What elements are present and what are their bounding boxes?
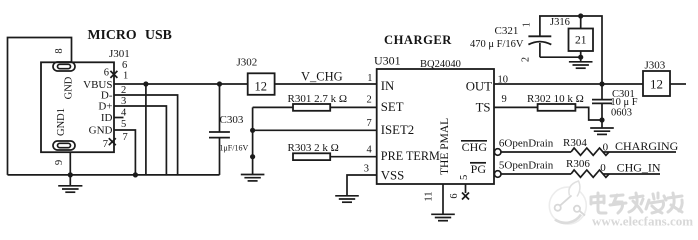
ground under connector [58, 186, 82, 192]
svg-text:PRE TERM: PRE TERM [381, 149, 440, 163]
svg-text:5: 5 [121, 119, 126, 130]
resistor R301 2.7k [253, 93, 377, 111]
svg-text:1μF/16V: 1μF/16V [220, 144, 249, 153]
svg-text:www.elecfans.com: www.elecfans.com [592, 214, 693, 229]
resistor R303 2k [288, 142, 377, 160]
svg-text:4: 4 [366, 145, 372, 156]
IC U301 BQ24040 [374, 54, 494, 185]
junction dot PRETERM [250, 154, 255, 159]
svg-text:5: 5 [459, 175, 470, 180]
wire GND row [114, 130, 135, 175]
connector J302 [237, 57, 275, 95]
junction dot OUT [599, 81, 604, 86]
svg-text:2: 2 [366, 95, 371, 106]
resistor R306 zigzag [566, 158, 609, 177]
wire TS row [494, 106, 538, 108]
wire VBUS to ground drop [145, 84, 147, 175]
pad oval top [53, 62, 75, 71]
ground VSS [335, 196, 359, 202]
svg-text:10 μ F: 10 μ F [610, 97, 637, 108]
svg-text:R306: R306 [566, 158, 590, 170]
wire top bus [539, 16, 602, 84]
svg-text:1: 1 [367, 73, 372, 84]
svg-text:2: 2 [521, 57, 532, 62]
svg-text:CHARGER: CHARGER [384, 33, 452, 47]
wire J302 to IN [275, 83, 377, 85]
svg-text:6: 6 [104, 68, 109, 79]
svg-text:PG: PG [471, 162, 487, 176]
capacitor C301 10uF [592, 84, 638, 128]
svg-text:9: 9 [502, 94, 507, 105]
svg-text:6OpenDrain: 6OpenDrain [499, 137, 554, 149]
junction dot J316 ground [578, 55, 583, 60]
svg-text:8: 8 [54, 48, 65, 53]
svg-text:0603: 0603 [611, 108, 632, 119]
svg-text:MICRO: MICRO [88, 27, 137, 42]
svg-text:7: 7 [366, 118, 371, 129]
svg-text:U301: U301 [374, 54, 401, 68]
wire OUT row [494, 83, 643, 85]
connector J316 [550, 16, 593, 62]
svg-text:IN: IN [381, 79, 395, 93]
pin 6 no-connect below chip [449, 184, 469, 200]
open-drain circle CHG [494, 149, 501, 156]
svg-text:12: 12 [650, 77, 663, 92]
connector J301 body [41, 62, 114, 152]
svg-text:ID: ID [101, 112, 113, 124]
junction dot VBUS drop [143, 81, 148, 86]
wire D- [114, 95, 178, 175]
resistor R304 zigzag [563, 137, 609, 155]
junction dot C301 bottom [599, 117, 604, 122]
svg-text:J301: J301 [109, 48, 130, 60]
open-drain circle PG [494, 171, 501, 178]
svg-text:C321: C321 [495, 25, 519, 37]
connector J303 [643, 60, 686, 97]
svg-text:J303: J303 [645, 60, 666, 72]
svg-text:1: 1 [123, 70, 128, 81]
svg-text:D+: D+ [98, 101, 112, 113]
svg-text:21: 21 [575, 35, 587, 47]
svg-text:3: 3 [364, 164, 369, 175]
svg-text:7: 7 [103, 139, 108, 150]
svg-text:10: 10 [498, 75, 509, 86]
pin 11 thermal pad [424, 184, 455, 221]
wire pin9 stub [69, 152, 71, 185]
svg-text:C303: C303 [220, 114, 244, 126]
svg-text:7: 7 [123, 132, 128, 143]
svg-text:CHG: CHG [462, 140, 488, 154]
ground under R-network [241, 175, 265, 181]
svg-text:6: 6 [449, 193, 460, 198]
junction dot pin9 [68, 172, 73, 177]
wire ground bus [8, 174, 220, 176]
junction dot ISET2 [250, 128, 255, 133]
junction dot GND row [133, 172, 138, 177]
no-connect X pin6 [110, 71, 117, 78]
svg-text:5OpenDrain: 5OpenDrain [499, 160, 554, 172]
wire VSS row [347, 175, 377, 196]
svg-text:9: 9 [54, 160, 65, 165]
svg-text:CHARGING: CHARGING [615, 139, 679, 153]
wire ID stub [114, 117, 124, 119]
junction dot J316 top [578, 13, 583, 18]
wire D+ [114, 106, 166, 175]
svg-text:THE PMAL: THE PMAL [439, 118, 451, 175]
watermark logo [549, 181, 586, 224]
svg-text:470 μ F/16V: 470 μ F/16V [470, 39, 524, 50]
wire CHARGING net [603, 151, 676, 153]
svg-text:1: 1 [522, 22, 533, 27]
svg-text:V_CHG: V_CHG [301, 70, 343, 84]
svg-text:GND1: GND1 [56, 108, 67, 136]
wire VBUS row [114, 83, 248, 85]
svg-text:12: 12 [255, 79, 268, 93]
wire shell top [8, 38, 72, 175]
svg-text:J316: J316 [550, 17, 570, 28]
wire C321 bottom to J316 ground [540, 56, 581, 58]
wire PG row [501, 173, 571, 175]
svg-text:CHG_IN: CHG_IN [617, 161, 661, 175]
capacitor C303 [209, 84, 248, 175]
no-connect X pin7 [109, 138, 116, 145]
watermark text dianzi fashaoyou [591, 193, 682, 213]
svg-text:0: 0 [600, 162, 606, 174]
pad oval bottom [53, 141, 75, 150]
svg-text:R304: R304 [563, 137, 587, 149]
svg-text:R303 2 k Ω: R303 2 k Ω [288, 142, 339, 154]
svg-text:11: 11 [424, 191, 435, 201]
wire CHG_IN net [603, 173, 660, 175]
wire CHG row [501, 151, 571, 153]
svg-text:VSS: VSS [381, 169, 404, 183]
svg-text:TS: TS [476, 101, 491, 115]
capacitor C321 470uF [470, 16, 551, 62]
svg-text:OUT: OUT [466, 80, 492, 94]
ground under J316 [569, 62, 593, 68]
wire ISET2 row [253, 129, 377, 131]
wire SET/ISET2/PRETERM vertical [252, 107, 254, 174]
svg-text:SET: SET [381, 100, 404, 114]
svg-text:ISET2: ISET2 [381, 123, 414, 137]
svg-text:GND: GND [64, 76, 75, 99]
junction dot C303 top [217, 81, 222, 86]
svg-text:USB: USB [145, 27, 172, 42]
ground under C301 [590, 128, 614, 134]
resistor R302 10k [527, 93, 602, 120]
svg-text:GND: GND [89, 125, 113, 137]
svg-text:J302: J302 [237, 57, 258, 69]
